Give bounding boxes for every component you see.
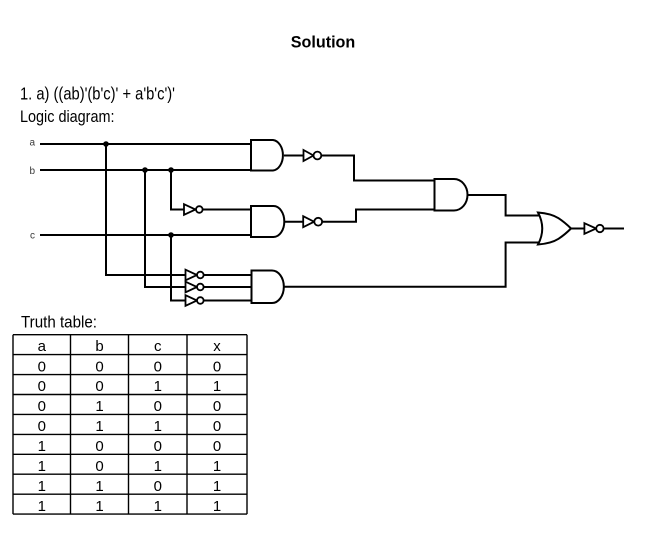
svg-text:c: c (30, 231, 35, 242)
svg-text:1: 1 (213, 458, 221, 475)
svg-text:0: 0 (213, 358, 221, 375)
svg-text:1: 1 (38, 438, 46, 455)
svg-text:0: 0 (38, 358, 46, 375)
svg-text:b: b (30, 166, 36, 177)
svg-text:0: 0 (95, 458, 103, 475)
svg-text:b: b (95, 338, 103, 355)
svg-text:1: 1 (95, 398, 103, 415)
svg-text:Solution: Solution (291, 33, 356, 52)
svg-text:0: 0 (38, 378, 46, 395)
svg-text:1: 1 (154, 378, 162, 395)
svg-text:Logic diagram:: Logic diagram: (20, 107, 115, 126)
svg-text:0: 0 (154, 398, 162, 415)
svg-text:0: 0 (38, 398, 46, 415)
svg-text:0: 0 (95, 378, 103, 395)
svg-text:1: 1 (154, 458, 162, 475)
svg-text:1: 1 (95, 418, 103, 435)
svg-text:1: 1 (154, 418, 162, 435)
svg-text:1: 1 (154, 498, 162, 515)
svg-text:a: a (38, 338, 47, 355)
svg-text:0: 0 (154, 478, 162, 495)
svg-text:0: 0 (154, 358, 162, 375)
svg-text:1: 1 (213, 478, 221, 495)
svg-text:1: 1 (95, 478, 103, 495)
svg-text:x: x (213, 338, 221, 355)
svg-text:0: 0 (213, 438, 221, 455)
svg-text:0: 0 (95, 438, 103, 455)
svg-text:1: 1 (38, 458, 46, 475)
svg-text:1. a) ((ab)'(b'c)' + a'b'c')': 1. a) ((ab)'(b'c)' + a'b'c')' (20, 84, 175, 104)
svg-text:a: a (30, 138, 36, 149)
svg-text:0: 0 (213, 418, 221, 435)
svg-text:0: 0 (154, 438, 162, 455)
svg-text:c: c (154, 338, 162, 355)
svg-text:1: 1 (38, 498, 46, 515)
svg-text:0: 0 (213, 398, 221, 415)
svg-text:1: 1 (213, 498, 221, 515)
svg-text:1: 1 (38, 478, 46, 495)
svg-text:1: 1 (95, 498, 103, 515)
svg-text:1: 1 (213, 378, 221, 395)
svg-text:0: 0 (95, 358, 103, 375)
svg-text:0: 0 (38, 418, 46, 435)
svg-text:Truth table:: Truth table: (21, 314, 97, 332)
